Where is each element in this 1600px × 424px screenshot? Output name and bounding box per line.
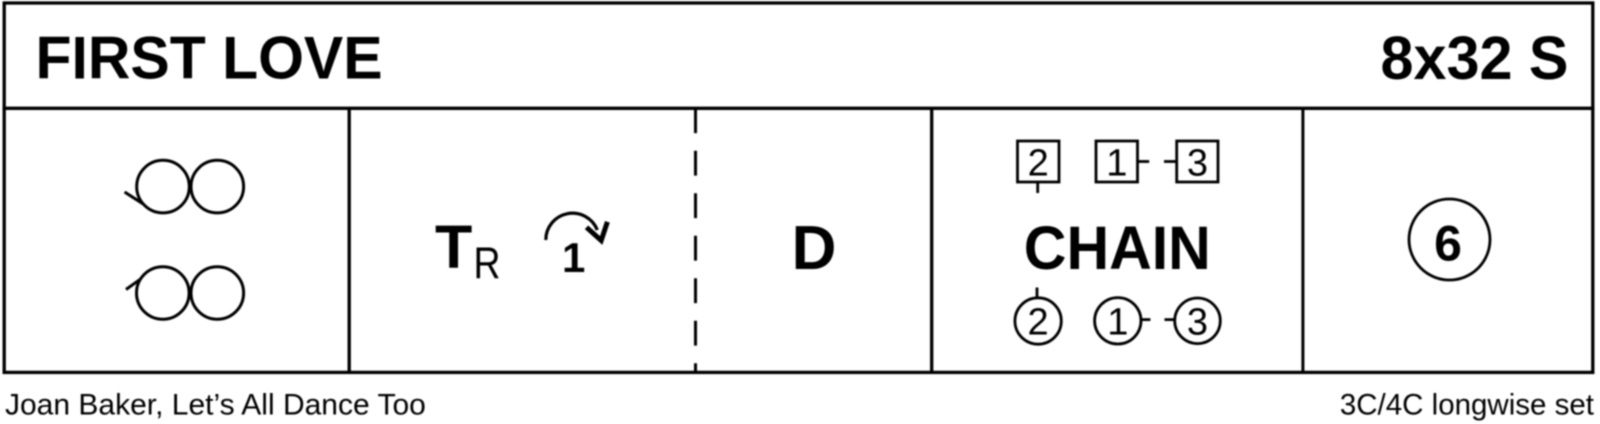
svg-text:2: 2 xyxy=(1028,143,1049,185)
svg-text:Joan Baker, Let’s All Dance To: Joan Baker, Let’s All Dance Too xyxy=(5,389,426,422)
svg-text:1: 1 xyxy=(562,234,585,281)
svg-text:3: 3 xyxy=(1187,302,1208,344)
svg-text:6: 6 xyxy=(1434,216,1462,272)
svg-text:T: T xyxy=(435,213,472,281)
svg-text:8x32 S: 8x32 S xyxy=(1381,24,1569,92)
svg-text:CHAIN: CHAIN xyxy=(1024,214,1211,282)
svg-text:R: R xyxy=(474,239,501,288)
svg-text:1: 1 xyxy=(1107,302,1128,344)
svg-text:3C/4C longwise set: 3C/4C longwise set xyxy=(1340,389,1594,422)
svg-text:2: 2 xyxy=(1028,302,1049,344)
svg-text:D: D xyxy=(792,214,837,283)
svg-text:3: 3 xyxy=(1187,143,1208,185)
svg-text:FIRST LOVE: FIRST LOVE xyxy=(36,23,383,91)
svg-text:1: 1 xyxy=(1106,143,1127,185)
